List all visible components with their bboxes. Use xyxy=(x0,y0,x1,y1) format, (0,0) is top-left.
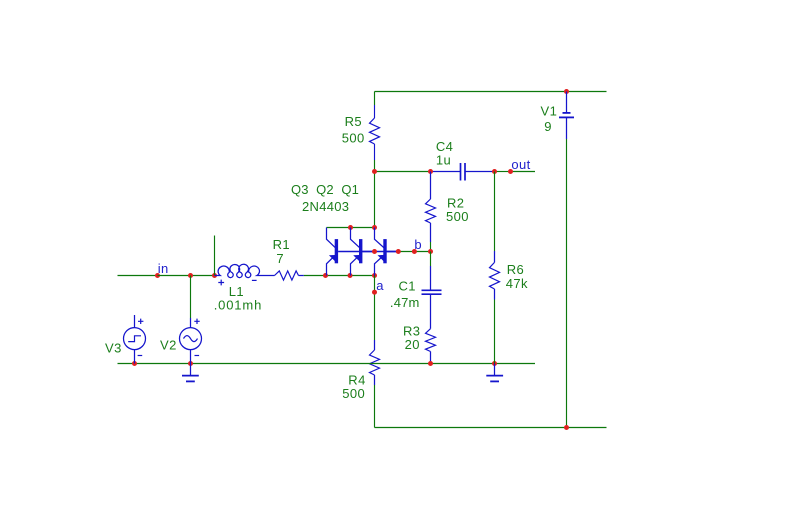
junction dot V3 ground xyxy=(132,361,137,366)
junction dot b-R2-C1 xyxy=(428,249,433,254)
label Q3 Q2 Q1 xyxy=(291,182,359,197)
svg-text:1u: 1u xyxy=(436,152,451,167)
wire R2 to node b xyxy=(430,242,432,252)
label V2 xyxy=(160,338,177,353)
label R3 xyxy=(403,324,420,339)
label R5 value 500 xyxy=(342,131,365,146)
wire out rail mid xyxy=(495,171,511,173)
svg-text:500: 500 xyxy=(342,131,365,146)
svg-text:47k: 47k xyxy=(506,276,528,291)
resistor R5 xyxy=(370,105,380,160)
wire top rail xyxy=(375,91,607,93)
label C1 value .47m xyxy=(390,295,420,310)
wire out rail left xyxy=(375,171,431,173)
junction dot L1 input xyxy=(212,273,217,278)
label R2 xyxy=(447,195,464,210)
node in label xyxy=(158,261,169,276)
label V3 xyxy=(105,341,122,356)
label R1 value 7 xyxy=(276,251,284,266)
svg-text:R5: R5 xyxy=(345,114,362,129)
svg-text:Q3 Q2 Q1: Q3 Q2 Q1 xyxy=(291,182,359,197)
label R3 value 20 xyxy=(405,337,420,352)
svg-text:R6: R6 xyxy=(507,262,524,277)
label R4 value 500 xyxy=(342,386,365,401)
label C4 xyxy=(436,139,453,154)
battery V1 xyxy=(559,92,574,140)
junction dot C4-R6 xyxy=(492,169,497,174)
node b label xyxy=(414,237,422,252)
junction dot V1 top xyxy=(564,89,569,94)
svg-text:7: 7 xyxy=(276,251,284,266)
wire R4 to bottom corner xyxy=(374,385,376,428)
label R6 value 47k xyxy=(506,276,528,291)
node out dot xyxy=(508,169,513,174)
label R1 xyxy=(273,237,290,252)
svg-text:out: out xyxy=(511,157,530,172)
wire collector feed vertical xyxy=(374,172,376,228)
junction dot C4-R2 xyxy=(428,169,433,174)
junction dot V2 ground xyxy=(188,361,193,366)
voltage source V2 (sine) xyxy=(180,318,202,364)
resistor R1 xyxy=(275,271,304,280)
svg-text:C1: C1 xyxy=(399,279,416,294)
node out label xyxy=(511,157,530,172)
wire V1 to bottom xyxy=(566,139,568,428)
junction dot V1 bottom xyxy=(564,425,569,430)
junction dot emitter Q2 xyxy=(348,273,353,278)
label R4 xyxy=(348,372,365,387)
wire bottom right xyxy=(375,427,607,429)
wire ground rail xyxy=(118,363,536,365)
transistor Q2 2N4403 (PNP) xyxy=(351,228,399,276)
label C4 value 1u xyxy=(436,152,451,167)
wire out to R6 xyxy=(494,172,496,252)
junction dot collector Q2 xyxy=(348,225,353,230)
wire input mid xyxy=(158,275,215,277)
svg-text:500: 500 xyxy=(342,386,365,401)
junction dot emitter Q1 xyxy=(372,273,377,278)
label L1 xyxy=(229,284,244,299)
label R6 xyxy=(507,262,524,277)
svg-text:a: a xyxy=(376,278,384,293)
node a dot xyxy=(372,290,377,295)
wire V2 to input xyxy=(190,276,192,319)
wire node a vertical xyxy=(374,276,376,341)
junction dot R6 ground xyxy=(492,361,497,366)
svg-text:.001mh: .001mh xyxy=(214,298,262,313)
label L1 value .001mh xyxy=(214,298,262,313)
svg-text:9: 9 xyxy=(544,119,552,134)
junction dot V2 branch xyxy=(188,273,193,278)
capacitor C4 xyxy=(431,163,495,181)
node b dot xyxy=(412,249,417,254)
transistor Q3 2N4403 (PNP) xyxy=(327,228,375,276)
label V1 xyxy=(541,103,558,118)
L1 minus sign xyxy=(252,279,257,281)
node in dot xyxy=(155,273,160,278)
resistor R4 xyxy=(370,340,380,385)
wire R6 to ground rail xyxy=(494,300,496,364)
svg-text:2N4403: 2N4403 xyxy=(302,199,349,214)
svg-text:.47m: .47m xyxy=(390,295,420,310)
svg-text:500: 500 xyxy=(446,209,469,224)
svg-text:20: 20 xyxy=(405,337,420,352)
svg-text:V3: V3 xyxy=(105,341,122,356)
wire base to node b xyxy=(398,251,430,253)
junction dot collector Q1 xyxy=(372,225,377,230)
L1 plus sign xyxy=(218,280,224,286)
label R2 value 500 xyxy=(446,209,469,224)
ground V2 xyxy=(182,364,199,382)
inductor L1 xyxy=(215,264,275,277)
svg-text:V2: V2 xyxy=(160,338,177,353)
wire stub up xyxy=(214,236,216,276)
transistor Q1 2N4403 (PNP) xyxy=(375,228,399,276)
wire R5 bottom lead segment xyxy=(374,160,376,172)
wire out rail right xyxy=(511,171,536,173)
svg-text:V1: V1 xyxy=(541,103,558,118)
junction dot emitter Q3 xyxy=(323,273,328,278)
label 2N4403 xyxy=(302,199,349,214)
resistor R3 xyxy=(426,329,436,364)
junction dot base Q2 xyxy=(396,249,401,254)
junction dot base Q3 xyxy=(372,249,377,254)
label V1 value 9 xyxy=(544,119,552,134)
resistor R6 xyxy=(490,251,500,300)
wire b to C1 xyxy=(430,252,432,267)
svg-text:b: b xyxy=(414,237,422,252)
capacitor C1 xyxy=(422,266,442,329)
ground right xyxy=(486,364,503,382)
label R5 xyxy=(345,114,362,129)
voltage source V3 (pulse) xyxy=(124,315,146,364)
junction dot R5-C4 xyxy=(372,169,377,174)
junction dot R3 ground xyxy=(428,361,433,366)
wire R5 top lead segment xyxy=(374,92,376,106)
node a label xyxy=(376,278,384,293)
wire emitter rail xyxy=(304,275,375,277)
label C1 xyxy=(399,279,416,294)
wire input left xyxy=(118,275,158,277)
wire collector rail xyxy=(327,227,375,229)
resistor R2 xyxy=(426,172,436,243)
